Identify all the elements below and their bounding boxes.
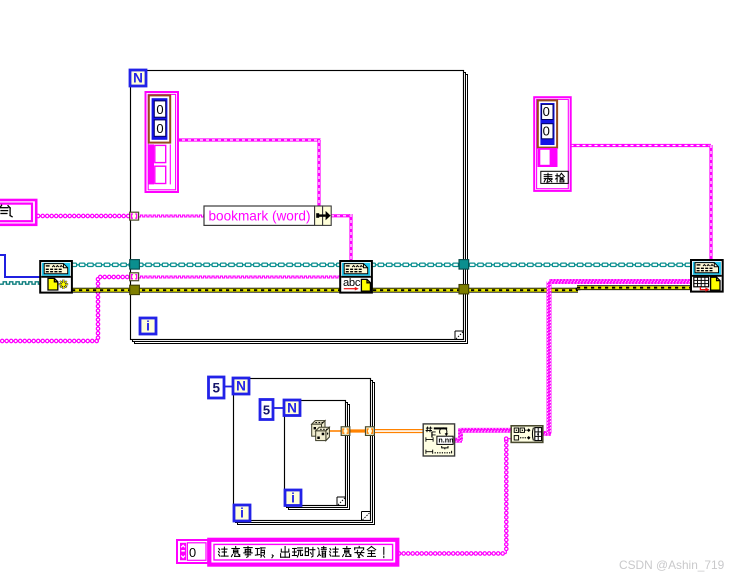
wire: error cluster wire across diagram (72, 288, 578, 293)
for-loop 1 (word report) main frame (131, 71, 464, 340)
numeric constant 5 (outer) (209, 377, 225, 398)
new-document asterisk (59, 280, 68, 289)
for-loop 1 folded corner (454, 331, 456, 340)
numeric constant 5 (inner) (260, 400, 273, 420)
wire: 1D string array from caption constant up to build-table node (397, 553, 506, 555)
for-loop 3 folded corner (336, 497, 338, 506)
wire: ActiveX reference chain across diagram (71, 264, 692, 266)
wire: bookmark output string down to Word insert-text (331, 214, 351, 217)
svg-text:0: 0 (156, 102, 163, 117)
svg-text:bookmark (word): bookmark (word) (209, 209, 311, 224)
wire: scalar string from tunnel to bookmark node (139, 215, 205, 217)
wire: 2D string array from build-table to Word table VI (543, 431, 552, 436)
array constant: bookmark index numbers (146, 92, 179, 192)
for-loop 3 iteration terminal i (285, 490, 301, 506)
tunnel: string array auto-index (left, text strings) (130, 273, 139, 281)
wire: numeric array from array constant to bookmark node (176, 138, 321, 141)
for-loop 1 iteration terminal i (140, 318, 156, 334)
svg-text:i: i (240, 506, 244, 521)
for-loop 2 folded corner (361, 512, 363, 521)
for-loop 2 (outer, rows) main frame (234, 379, 371, 521)
wire: error-in blue int wire to Word New Document (0, 255, 40, 277)
for-loop 1 (word report) shadow frames (135, 75, 468, 344)
svg-text:i: i (146, 319, 150, 334)
wire: string array from constant to loop tunnel (36, 215, 131, 217)
tunnel: string array auto-index (left, bookmark strings) (130, 212, 139, 220)
for-loop 2 (outer, rows) shadow frames (238, 383, 375, 525)
tunnel: inner loop auto-index (orange) (341, 427, 350, 436)
bookmark node variant cells with arrow glyph (315, 206, 323, 225)
wire: constant 5 to outer N (224, 386, 234, 388)
numeric element frame (brown) with I32 blue field (149, 95, 170, 142)
tunnel: outer loop auto-index (orange) (366, 427, 375, 436)
table grid glyph (694, 277, 709, 287)
tunnel: error cluster (left) (130, 285, 140, 294)
wire: scalar string from tunnel to Word insert-text (139, 276, 341, 278)
tunnel: ActiveX reference (right) (459, 260, 469, 270)
subVI: Word New Document (40, 261, 72, 293)
svg-text:0: 0 (543, 124, 550, 139)
for-loop 3 count terminal N (284, 400, 300, 416)
subVI: Word Insert Table (691, 260, 723, 292)
empty array elements (magenta) (149, 144, 155, 184)
svg-text:CSDN @Ashin_719: CSDN @Ashin_719 (619, 558, 725, 572)
function: Number To Fractional String (n.nn) (423, 424, 454, 456)
svg-text:n.nn: n.nn (438, 436, 453, 445)
wire: 2D numeric array to Number To Fractional String (374, 429, 424, 431)
for-loop 2 iteration terminal i (234, 505, 250, 521)
svg-text:abc: abc (343, 277, 361, 289)
wire: file path (teal zigzag) to Word New Document (0, 282, 40, 284)
function: Random Number (dice) (312, 421, 325, 437)
string constant (clipped at left edge): 气 (0, 200, 36, 225)
svg-text:0: 0 (189, 545, 196, 560)
svg-text:0: 0 (543, 104, 550, 119)
tunnel: ActiveX reference (left) (130, 260, 140, 270)
wire: string array from left border at bottom, up to loop tunnel (0, 340, 98, 342)
string array constant: 注意事项，出玩时请注意安全！ (209, 540, 397, 565)
for-loop 3 (inner, cols) main frame (285, 401, 346, 506)
svg-text:i: i (291, 490, 295, 505)
wire: 2D string array from n.nn to build-table node (454, 438, 462, 443)
array index display of caption array (177, 540, 208, 563)
label: 表格 (541, 171, 568, 183)
wire: constant 5 to inner N (273, 407, 285, 409)
svg-text:0: 0 (156, 121, 163, 136)
wire: random numbers out of inner loop (orange) (329, 430, 342, 432)
svg-text:5: 5 (263, 402, 270, 417)
svg-text:5: 5 (212, 381, 220, 396)
subVI: Word Insert Text (abc) (340, 261, 372, 293)
svg-text:N: N (133, 71, 143, 86)
for-loop 3 (inner, cols) shadow frames (289, 405, 350, 510)
svg-text:N: N (236, 379, 246, 394)
property node: bookmark (word) (204, 206, 315, 225)
array control: 表格 (table position) (534, 97, 571, 191)
for-loop 2 count terminal N (233, 378, 249, 394)
function: build table (array to cells) (511, 426, 543, 443)
svg-text:N: N (287, 400, 297, 415)
for-loop 1 count terminal N (130, 70, 146, 86)
tunnel: error cluster (right) (459, 285, 469, 294)
wire: position array from 表格 array to Word table VI (571, 144, 712, 147)
